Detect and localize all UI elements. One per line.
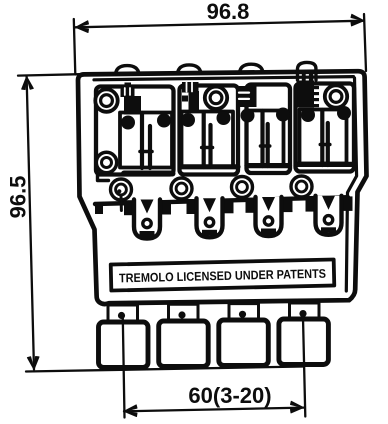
- unit 4 intonation spring (black): [297, 81, 315, 108]
- block tab 2: [169, 304, 199, 321]
- block 4: [279, 319, 329, 365]
- unit 1 string groove dot left: [121, 116, 135, 130]
- unit 2 string groove dot right: [217, 111, 231, 125]
- unit 2 string slot lines: [202, 112, 206, 167]
- block 2: [159, 321, 209, 367]
- unit 4 string groove dot left: [301, 108, 315, 122]
- unit 1 mount screw top-left: [95, 89, 117, 111]
- unit 1 saddle base bar: [124, 171, 173, 177]
- unit 2 saddle base bar: [181, 164, 238, 169]
- unit 2 intonation spring (black): [182, 82, 199, 93]
- top bump 3: [240, 64, 264, 73]
- block tab 4: [290, 303, 320, 320]
- block tab 1: [108, 305, 138, 322]
- unit 3 intonation spring (black): [239, 86, 257, 107]
- unit 2 mount screw top-right: [205, 87, 227, 109]
- patent text box: [111, 259, 335, 290]
- unit 3 string groove dot left: [241, 109, 255, 123]
- string tab 1: [124, 200, 171, 239]
- pivot screw 3: [232, 177, 253, 198]
- block 1: [99, 322, 149, 368]
- unit 4 striped post: [298, 62, 317, 88]
- unit 2 frame: [180, 86, 239, 175]
- unit 3 string slot lines: [260, 111, 264, 166]
- plate mid band line: [95, 197, 348, 204]
- unit 4 saddle base bar: [297, 162, 353, 167]
- dimension 60(3-20) bottom: [123, 318, 305, 418]
- pivot screw 1: [110, 179, 134, 211]
- svg-text:60(3-20): 60(3-20): [188, 383, 271, 408]
- unit 1 string slot lines: [140, 113, 144, 168]
- unit 2 saddle block: [182, 112, 234, 167]
- unit 4 frame: [296, 84, 355, 172]
- bridge plate outline: [78, 71, 367, 304]
- pivot screw 2: [171, 178, 192, 199]
- unit 1 mount screw mid-left: [96, 152, 116, 172]
- unit 1 frame lower-left ear: [98, 173, 109, 181]
- plate inner top line: [94, 77, 354, 80]
- unit 1 intonation spring (black): [125, 83, 132, 88]
- unit 1 saddle block: [120, 113, 172, 168]
- top bump 1: [116, 66, 140, 75]
- unit 4 string groove dot right: [337, 106, 351, 120]
- svg-text:96.5: 96.5: [6, 176, 31, 219]
- unit 3 saddle base bar: [247, 163, 290, 168]
- block 3: [219, 320, 268, 366]
- svg-text:96.8: 96.8: [207, 0, 250, 24]
- unit 1 frame: [96, 87, 174, 175]
- unit 3 saddle block: [247, 111, 284, 166]
- unit 1 string groove dot right: [157, 114, 171, 128]
- unit 3 frame: [247, 85, 291, 174]
- string tab 2: [187, 198, 234, 237]
- top bump 2: [178, 65, 202, 74]
- unit 3 string groove dot right: [276, 108, 290, 122]
- unit 4 string slot lines: [320, 110, 324, 165]
- unit 2 string groove dot left: [181, 113, 195, 127]
- band end blob left: [95, 203, 103, 214]
- plate inner right edge: [346, 78, 356, 291]
- pivot screw 4: [291, 176, 312, 197]
- block tab 3: [229, 304, 259, 321]
- dimension 96.8 top: [74, 0, 366, 75]
- string tab 4: [306, 196, 353, 235]
- unit 4 mount screw top-right: [325, 85, 347, 107]
- string tab 3: [246, 197, 293, 236]
- unit 4 saddle block: [300, 110, 347, 164]
- dimension 96.5 left: [6, 74, 305, 371]
